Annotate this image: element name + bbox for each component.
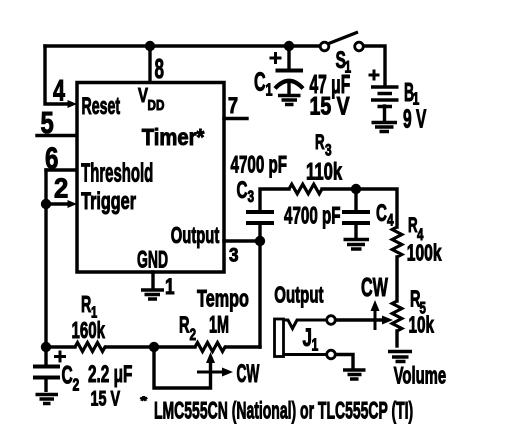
wire top supply rail left segment xyxy=(45,44,322,47)
svg-text:Tempo: Tempo xyxy=(197,285,249,312)
svg-text:CW: CW xyxy=(237,361,260,388)
wire pin 8 drop xyxy=(148,46,151,82)
svg-text:7: 7 xyxy=(228,94,238,118)
resistor R4 xyxy=(392,227,402,257)
wire left rail pins 6-2 down to bottom node xyxy=(44,170,47,347)
node R1 / R2 junction xyxy=(149,342,159,352)
svg-text:1M: 1M xyxy=(209,312,229,339)
wire left drop to pin 4 xyxy=(45,46,66,104)
svg-text:J: J xyxy=(303,324,312,352)
node C1 / rail junction xyxy=(284,41,294,51)
node C2 / R1 junction xyxy=(41,342,51,352)
wire C4 stub xyxy=(354,189,357,210)
svg-text:160k: 160k xyxy=(72,318,105,344)
battery B1 plus sign xyxy=(369,70,380,81)
svg-text:Output: Output xyxy=(171,223,220,249)
op-amp U1 timer IC box xyxy=(77,83,224,273)
wire GND pin 1 xyxy=(151,272,154,288)
jack J1 body xyxy=(275,319,284,357)
ground (J1) xyxy=(343,370,366,379)
wire battery to ground xyxy=(383,106,386,121)
label C4 xyxy=(376,201,394,231)
svg-text:1: 1 xyxy=(312,335,319,355)
svg-text:4700 pF: 4700 pF xyxy=(231,152,288,178)
svg-text:*: * xyxy=(141,394,148,407)
node pin8 / rail junction xyxy=(145,41,155,51)
svg-text:Output: Output xyxy=(274,282,324,308)
svg-text:8: 8 xyxy=(155,53,165,84)
label J1 xyxy=(303,324,319,355)
capacitor C2 plus sign xyxy=(54,351,66,363)
ground (B1) xyxy=(372,123,398,132)
svg-text:110k: 110k xyxy=(306,158,342,185)
svg-text:Trigger: Trigger xyxy=(81,188,136,215)
resistor R3 xyxy=(289,184,322,194)
label R4 xyxy=(408,213,423,245)
svg-text:3: 3 xyxy=(229,245,239,266)
resistor R1 xyxy=(75,343,106,352)
junction node dots xyxy=(41,41,361,352)
svg-text:V: V xyxy=(138,84,148,107)
label R1 xyxy=(81,293,97,321)
capacitor C1 polarized plates xyxy=(275,71,303,89)
wire C1 stub from rail xyxy=(287,46,290,69)
label B1 xyxy=(404,79,419,109)
svg-text:R: R xyxy=(179,312,190,338)
arrowhead R2 CW direction xyxy=(197,368,233,377)
svg-text:Timer*: Timer* xyxy=(142,124,205,151)
ground (C4) xyxy=(344,240,370,250)
svg-text:LMC555CN (National) or TLC555C: LMC555CN (National) or TLC555CP (TI) xyxy=(154,398,413,425)
svg-text:9 V: 9 V xyxy=(403,106,426,134)
svg-text:2.2 μF: 2.2 μF xyxy=(88,362,132,388)
svg-text:C: C xyxy=(376,201,387,227)
node pin3 / C3 junction xyxy=(255,236,265,246)
wire output node down to bottom rail xyxy=(258,241,261,347)
svg-text:10k: 10k xyxy=(409,312,435,338)
wire pin 7 stub xyxy=(224,117,247,120)
svg-text:2: 2 xyxy=(190,326,197,345)
svg-text:4700 pF: 4700 pF xyxy=(284,203,341,229)
svg-text:15 V: 15 V xyxy=(310,92,350,120)
svg-text:R: R xyxy=(81,293,91,318)
label R3 xyxy=(315,130,332,160)
ground (R5) xyxy=(388,352,412,362)
svg-text:C: C xyxy=(62,362,73,390)
svg-text:3: 3 xyxy=(248,188,255,207)
node pin2 / threshold junction xyxy=(41,199,51,209)
wire pin 3 output stub xyxy=(224,239,260,242)
svg-text:3: 3 xyxy=(325,142,332,161)
svg-text:100k: 100k xyxy=(407,240,442,266)
svg-text:Reset: Reset xyxy=(82,93,121,120)
wire R4 to R5 xyxy=(395,257,398,301)
svg-text:Volume: Volume xyxy=(394,363,447,389)
svg-text:C: C xyxy=(254,66,266,96)
wire pin 6 stub xyxy=(46,168,76,171)
label S1 xyxy=(336,48,352,77)
ground (pin 1) xyxy=(141,290,164,299)
label C2 xyxy=(62,362,80,395)
wire C3 top to R3 node xyxy=(260,189,289,210)
switch S1 xyxy=(320,32,363,51)
wire C3 bottom to pin 3 node xyxy=(258,225,261,241)
svg-text:Threshold: Threshold xyxy=(81,159,153,187)
label R5 xyxy=(410,286,426,318)
svg-text:15 V: 15 V xyxy=(91,386,121,411)
svg-text:CW: CW xyxy=(361,273,389,302)
ground (C1) xyxy=(278,96,301,105)
svg-text:R: R xyxy=(315,130,325,154)
jack J1 tip terminal circle xyxy=(327,316,336,325)
wire pin 5 stub xyxy=(37,134,76,137)
wire C4 to ground xyxy=(354,225,357,238)
arrowhead pin 2 xyxy=(68,200,78,208)
capacitor C3 plates xyxy=(246,212,274,223)
label C1 xyxy=(254,66,273,100)
label VDD xyxy=(138,84,165,113)
wire C1 to ground xyxy=(287,84,290,93)
capacitor C2 plates xyxy=(33,367,60,378)
node R3 / C4 junction xyxy=(351,184,361,194)
wire R5 to ground xyxy=(395,331,398,346)
resistor R2 xyxy=(195,343,226,352)
label C3 xyxy=(237,178,255,207)
svg-text:1: 1 xyxy=(266,80,273,100)
jack J1 tip contact xyxy=(284,320,327,329)
svg-text:GND: GND xyxy=(137,247,168,274)
ground (C2) xyxy=(36,395,59,404)
jack J1 sleeve line xyxy=(284,353,327,356)
arrowhead R5 CW direction xyxy=(371,300,380,330)
arrowhead pin 4 xyxy=(68,100,78,108)
wire pin 2 stub xyxy=(46,202,66,205)
wire switch output to battery positive xyxy=(362,46,385,85)
svg-text:6: 6 xyxy=(45,141,58,176)
label R2 xyxy=(179,312,196,345)
battery B1 xyxy=(371,87,399,107)
wire R3 right to corner node xyxy=(322,189,397,227)
svg-text:2: 2 xyxy=(73,375,80,395)
svg-text:C: C xyxy=(237,178,248,204)
svg-text:4: 4 xyxy=(387,212,394,231)
svg-text:1: 1 xyxy=(165,275,175,300)
wire jack sleeve to ground xyxy=(336,355,354,369)
wire C2 stub xyxy=(44,347,47,392)
svg-text:5: 5 xyxy=(41,105,54,140)
arrowhead R2 wiper xyxy=(206,352,215,363)
arrowhead R5 wiper xyxy=(382,316,393,325)
svg-text:4: 4 xyxy=(53,73,65,107)
svg-text:2: 2 xyxy=(54,173,68,204)
wire bottom rail C2 to output corner xyxy=(46,345,260,348)
jack J1 sleeve terminal circle xyxy=(327,350,336,359)
capacitor C1 plus sign xyxy=(270,52,282,64)
svg-text:R: R xyxy=(408,213,418,237)
svg-text:1: 1 xyxy=(345,59,352,78)
wire jack tip to R5 wiper xyxy=(336,318,383,321)
wire R2 wiper loop xyxy=(154,347,211,388)
resistor R5 xyxy=(392,301,402,331)
svg-text:DD: DD xyxy=(148,97,165,114)
capacitor C4 plates xyxy=(342,212,370,223)
